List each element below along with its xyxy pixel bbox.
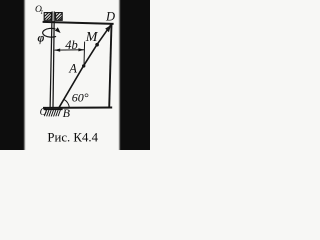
ground hatching below bottom bearing [44, 109, 63, 116]
svg-text:M: M [85, 30, 99, 45]
vertical shaft O1-O (axis of rotation, double line) [50, 12, 52, 108]
left black scan band [0, 0, 25, 154]
svg-text:Рис. К4.4: Рис. К4.4 [47, 131, 98, 145]
bottom edge line through B to bottom-right corner [43, 107, 112, 109]
svg-text:A: A [68, 61, 77, 75]
point A dot [82, 64, 85, 67]
rotation arrow phi (ellipse arc around shaft) [43, 28, 56, 37]
svg-text:60°: 60° [72, 91, 89, 105]
top bearing right hatched block [56, 13, 63, 21]
svg-text:φ: φ [38, 30, 45, 44]
60 degree angle arc at B [64, 99, 70, 107]
rotation arrowhead [55, 27, 61, 33]
svg-text:4b: 4b [65, 38, 78, 52]
paper background [0, 0, 150, 150]
4b dimension line with two arrowheads [55, 49, 84, 51]
dimension extension line down to point A [83, 42, 86, 66]
top edge line from bearing to corner D [43, 22, 114, 24]
arrowhead at D end of diagonal [105, 25, 111, 32]
diagonal line B-D on which point M moves [58, 25, 111, 109]
svg-text:D: D [105, 10, 115, 24]
point M dot [95, 43, 99, 47]
svg-text:B: B [63, 106, 71, 120]
svg-text:O: O [40, 107, 47, 118]
top bearing left hatched block [44, 13, 51, 21]
right edge of plate (D down to bottom corner) [109, 24, 111, 108]
right black scan band [120, 0, 155, 154]
